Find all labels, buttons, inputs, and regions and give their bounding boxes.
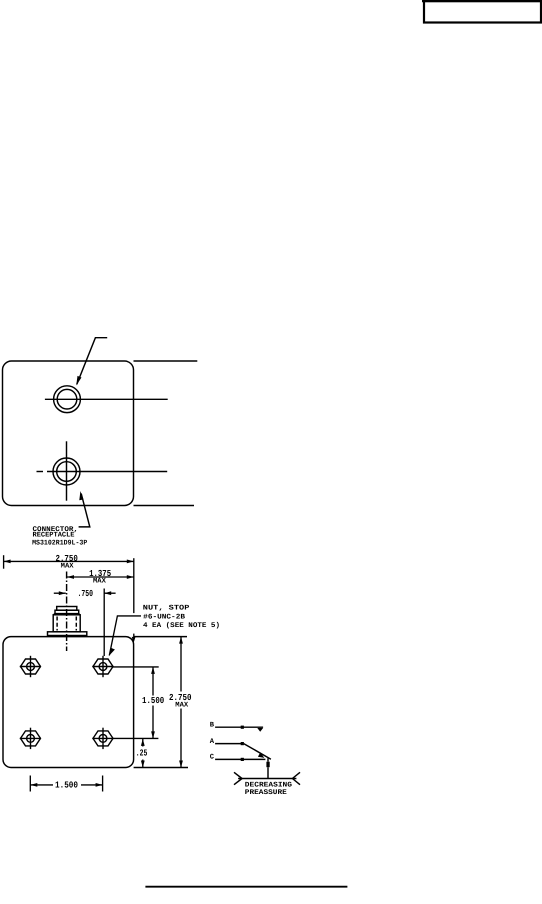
svg-text:MAX: MAX xyxy=(61,563,75,571)
svg-text:4 EA (SEE NOTE 5): 4 EA (SEE NOTE 5) xyxy=(143,621,220,630)
svg-text:MAX: MAX xyxy=(93,578,107,586)
svg-text:1.500: 1.500 xyxy=(142,695,164,706)
svg-text:MS3102R1D9L-3P: MS3102R1D9L-3P xyxy=(32,540,87,548)
svg-text:#6-UNC-2B: #6-UNC-2B xyxy=(143,613,186,621)
svg-text:PREASSURE: PREASSURE xyxy=(245,789,287,797)
svg-text:C: C xyxy=(210,754,215,762)
svg-text:A: A xyxy=(210,738,215,746)
svg-text:RECEPTACLE: RECEPTACLE xyxy=(33,532,75,540)
svg-text:MAX: MAX xyxy=(175,701,189,709)
svg-text:NUT, STOP: NUT, STOP xyxy=(143,605,190,613)
svg-text:.25: .25 xyxy=(136,747,148,758)
svg-text:.750: .750 xyxy=(78,588,94,599)
svg-text:B: B xyxy=(210,721,215,729)
svg-text:1.500: 1.500 xyxy=(55,780,78,791)
